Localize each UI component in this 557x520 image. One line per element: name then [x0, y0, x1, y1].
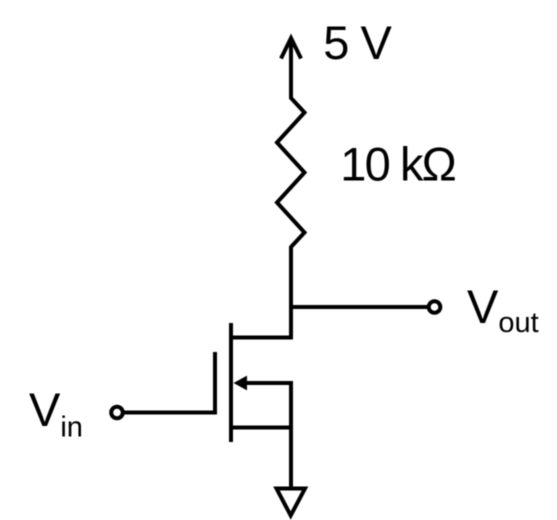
- wire body and source to ground: [289, 381, 293, 487]
- transistor Q1 body arrow: [234, 376, 292, 391]
- power supply arrow (5 V rail): [281, 38, 301, 98]
- wire resistor to drain node: [289, 246, 293, 340]
- transistor Q1 gate bar: [213, 352, 217, 415]
- svg-text:10 kΩ: 10 kΩ: [340, 138, 457, 191]
- ground: [277, 489, 306, 516]
- wire output node to Vout terminal: [291, 305, 428, 309]
- svg-text:5 V: 5 V: [323, 16, 392, 69]
- resistor R1: [277, 97, 305, 247]
- wire source: [231, 426, 291, 430]
- terminal Vin: [111, 407, 123, 419]
- svg-text:Vin: Vin: [29, 383, 83, 444]
- svg-text:Vout: Vout: [467, 280, 539, 339]
- wire gate from Vin: [124, 411, 217, 415]
- terminal Vout: [429, 301, 441, 313]
- transistor Q1 channel bar: [229, 323, 233, 442]
- wire drain: [231, 336, 294, 340]
